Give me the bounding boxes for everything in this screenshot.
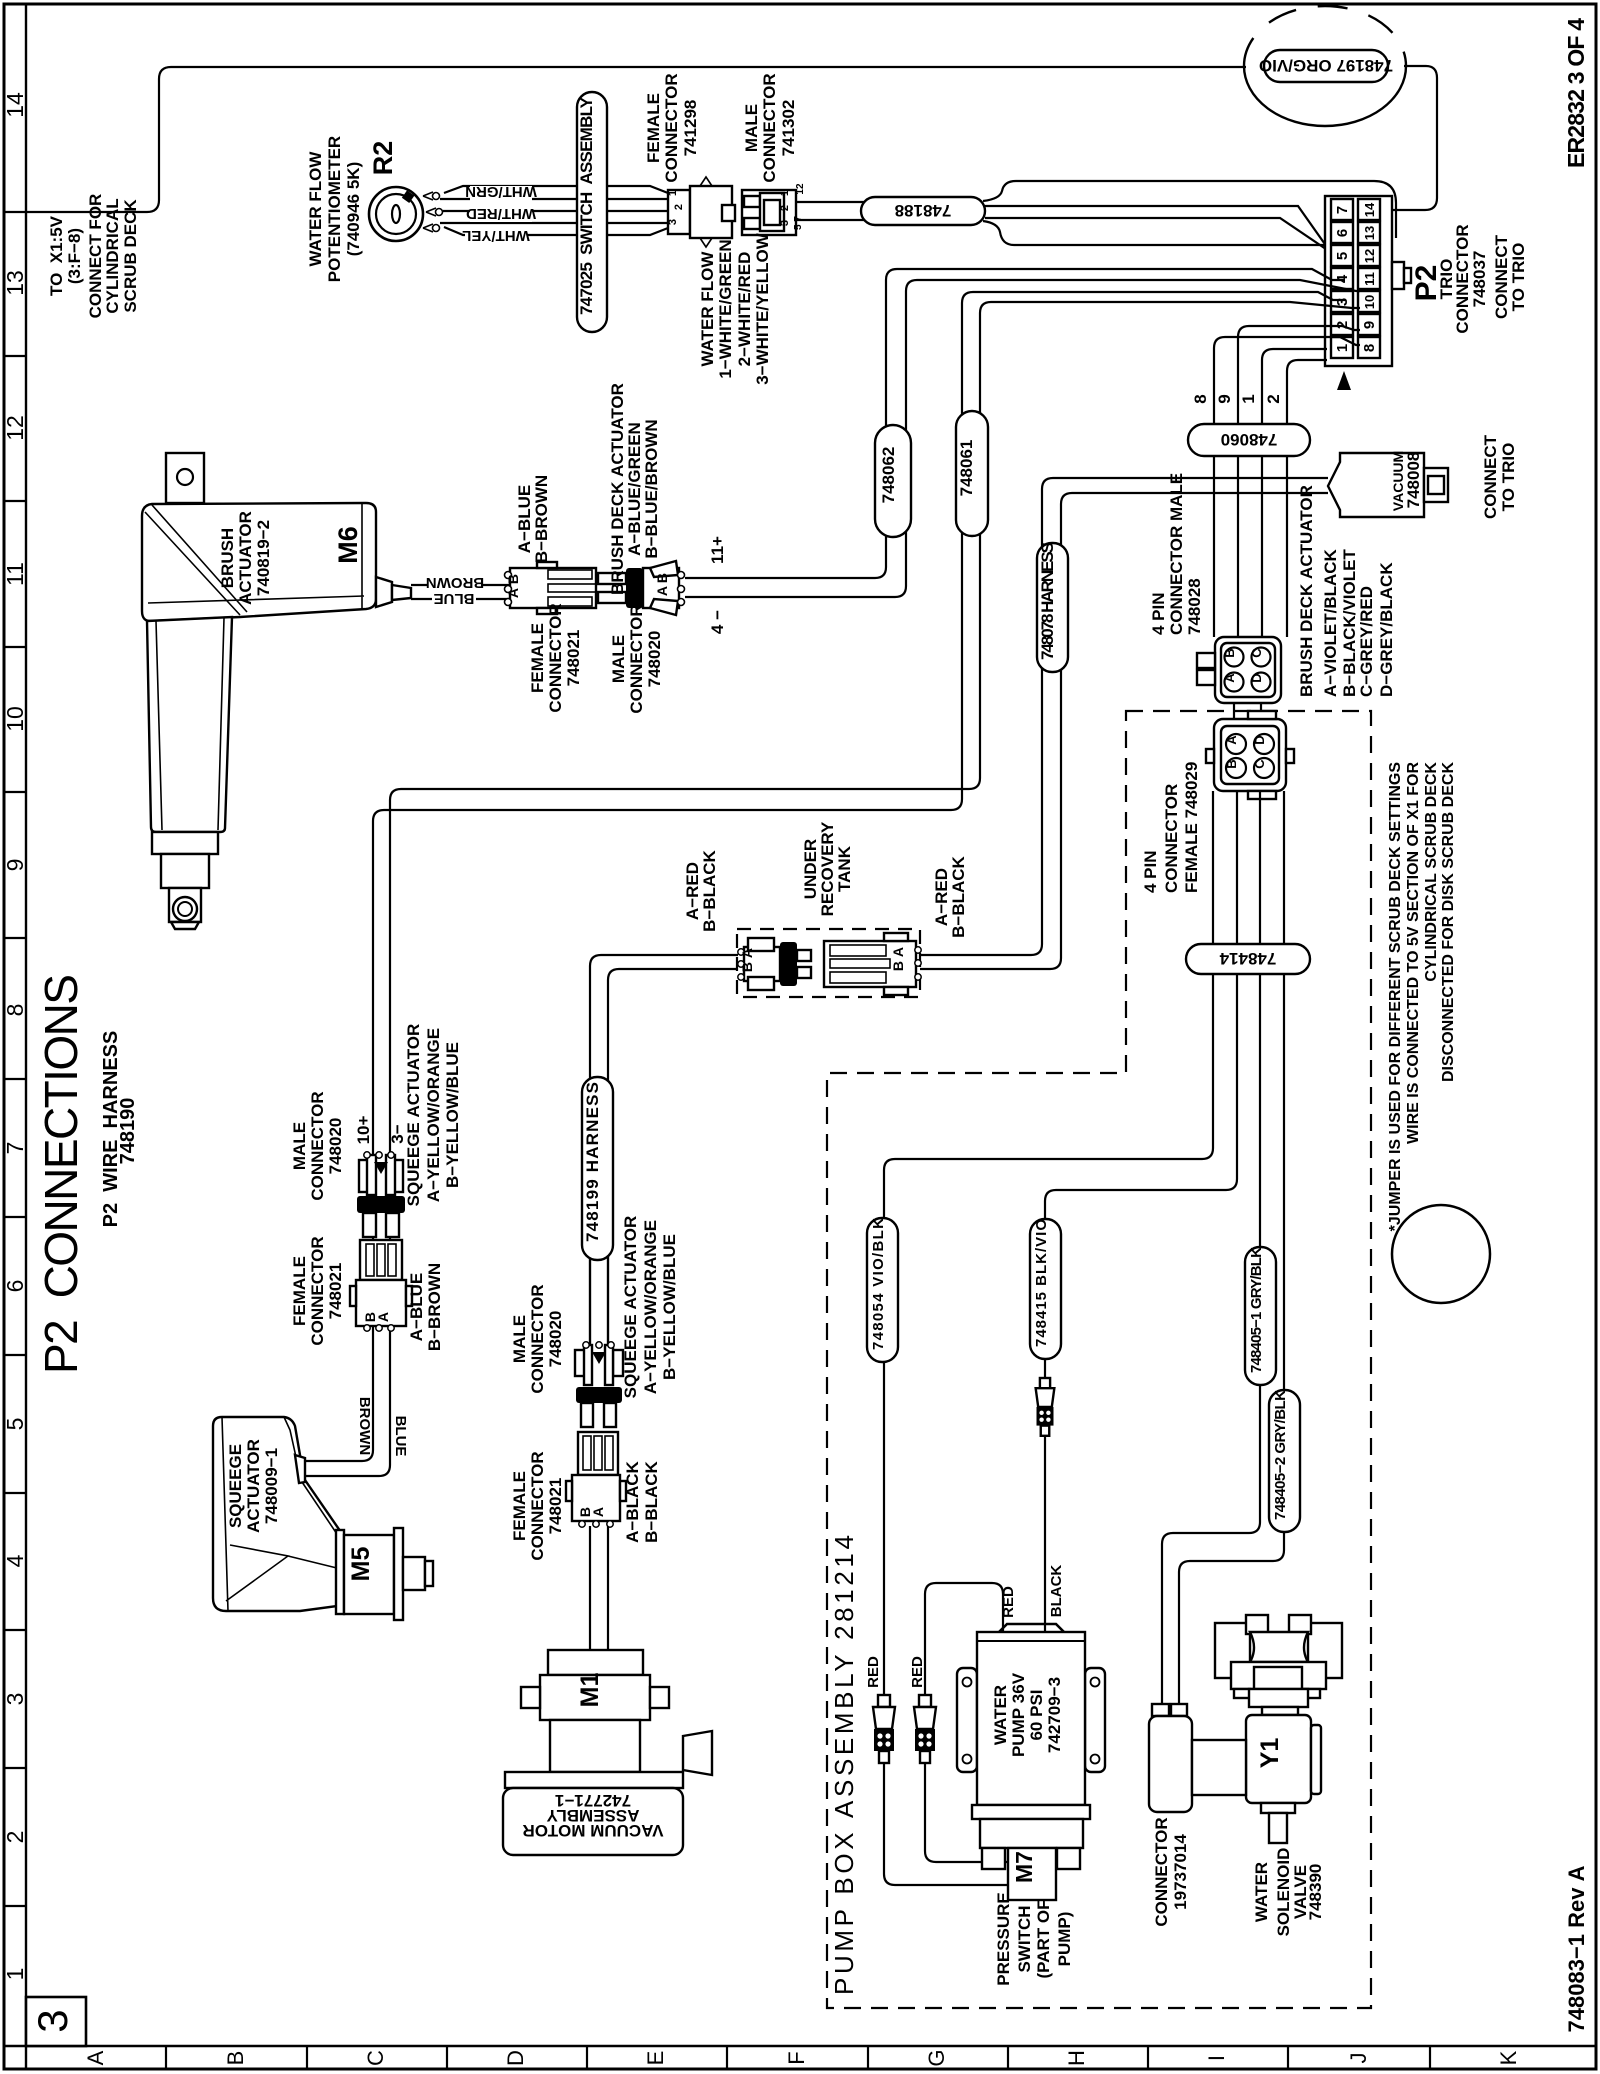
- svg-text:FEMALE 748029: FEMALE 748029: [1182, 762, 1201, 893]
- Y1 coil: [1246, 1715, 1311, 1803]
- svg-text:10: 10: [2, 706, 28, 732]
- svg-text:60 PSI: 60 PSI: [1027, 1689, 1046, 1740]
- svg-text:A: A: [654, 586, 670, 596]
- svg-text:CONNECTOR: CONNECTOR: [528, 1284, 547, 1393]
- svg-text:12: 12: [1362, 249, 1377, 263]
- svg-text:8: 8: [1191, 394, 1210, 403]
- svg-text:748020: 748020: [645, 631, 664, 688]
- wire label capsule 748199 HARNESS: [582, 1077, 613, 1260]
- svg-text:CYLINDRICAL: CYLINDRICAL: [103, 198, 122, 313]
- water solenoid valve Y1 manifold: [1215, 1623, 1250, 1678]
- wire label capsule 748405-2 GRY/BLK: [1269, 1390, 1300, 1532]
- inline connector (RED chain): [919, 1695, 931, 1707]
- svg-text:MALE: MALE: [510, 1315, 529, 1363]
- svg-text:9: 9: [2, 859, 28, 872]
- svg-text:MALE: MALE: [290, 1122, 309, 1170]
- svg-text:SQUEEGE: SQUEEGE: [226, 1444, 245, 1528]
- P2 pin 4: [1331, 268, 1353, 289]
- svg-text:748028: 748028: [1185, 578, 1204, 635]
- wire M6 B to P2 pin 11: [685, 280, 1360, 597]
- svg-text:Y1: Y1: [1256, 1738, 1284, 1769]
- svg-text:K: K: [1496, 2050, 1521, 2065]
- svg-text:1: 1: [667, 190, 679, 196]
- svg-text:D: D: [1252, 735, 1267, 744]
- svg-text:MALE: MALE: [609, 635, 628, 683]
- 4 pin connector male 748028: [1215, 637, 1281, 703]
- water pump 36V 60 PSI 742709-3: [999, 1624, 1064, 1632]
- wires P2 pins 8 9 1 2 down to 4 pin connector: [1214, 337, 1360, 424]
- P2 pin 14: [1358, 199, 1380, 220]
- svg-text:2: 2: [779, 205, 791, 211]
- svg-text:A−YELLOW/ORANGE: A−YELLOW/ORANGE: [424, 1028, 443, 1202]
- svg-text:FEMALE: FEMALE: [528, 623, 547, 693]
- svg-text:B−BROWN: B−BROWN: [425, 1263, 444, 1351]
- svg-text:12: 12: [795, 183, 806, 195]
- svg-text:3−WHITE/YELLOW: 3−WHITE/YELLOW: [753, 232, 772, 385]
- recovery tank female connector: [824, 941, 916, 987]
- switch assembly capsule 747025: [577, 92, 607, 332]
- svg-text:2: 2: [673, 204, 685, 210]
- brush actuator leg: [147, 617, 232, 832]
- svg-text:B: B: [739, 962, 755, 972]
- svg-text:12: 12: [2, 415, 28, 441]
- svg-text:10: 10: [1362, 295, 1377, 309]
- svg-text:CYLINDRICAL SCRUB DECK: CYLINDRICAL SCRUB DECK: [1423, 762, 1440, 982]
- svg-text:8: 8: [1361, 344, 1378, 352]
- svg-text:3: 3: [779, 220, 791, 226]
- P2 pin 5: [1331, 245, 1353, 266]
- svg-text:MALE: MALE: [742, 104, 761, 152]
- svg-text:C: C: [1249, 648, 1264, 658]
- svg-text:(3:F−8): (3:F−8): [65, 228, 84, 284]
- svg-text:POTENTIOMETER: POTENTIOMETER: [325, 136, 344, 282]
- svg-text:CONNECTOR: CONNECTOR: [1162, 784, 1181, 893]
- female connector 748021 (M6): [510, 568, 596, 608]
- P2 pin 7: [1331, 199, 1353, 220]
- balloon ellipse around 748197 label (dashed top arc): [1244, 66, 1406, 126]
- wire label capsule 748061: [956, 411, 988, 536]
- brush actuator rod and eye: [152, 832, 218, 854]
- svg-text:ACTUATOR: ACTUATOR: [236, 511, 255, 605]
- svg-text:CONNECTOR MALE: CONNECTOR MALE: [1167, 473, 1186, 635]
- svg-text:BROWN: BROWN: [426, 574, 484, 591]
- svg-text:748054 VIO/BLK: 748054 VIO/BLK: [870, 1218, 887, 1350]
- svg-text:B−BROWN: B−BROWN: [532, 475, 551, 563]
- squeegee actuator 748009-1 body M5: [213, 1417, 345, 1611]
- wire WHT/GRN: [440, 198, 668, 200]
- wire M6 A to P2 pin 4: [685, 269, 1345, 578]
- svg-text:BLUE: BLUE: [434, 590, 475, 607]
- svg-text:M6: M6: [333, 526, 363, 564]
- svg-text:2: 2: [1264, 394, 1283, 403]
- svg-text:748190: 748190: [117, 1098, 139, 1165]
- svg-text:FEMALE: FEMALE: [290, 1256, 309, 1326]
- female connector 748021 (M1 chain): [578, 1432, 618, 1475]
- svg-text:WHT/RED: WHT/RED: [466, 205, 536, 222]
- svg-text:A: A: [375, 1312, 391, 1322]
- svg-text:ER2832 3 OF 4: ER2832 3 OF 4: [1563, 18, 1589, 168]
- svg-text:PUMP 36V: PUMP 36V: [1009, 1672, 1028, 1757]
- inline connector (748054 chain): [878, 1695, 890, 1707]
- vacuum plug 748008: [1328, 453, 1424, 517]
- svg-text:6: 6: [2, 1280, 28, 1293]
- svg-text:B: B: [223, 2051, 248, 2066]
- female connector 748021 (M5 chain): [360, 1240, 402, 1280]
- svg-text:1: 1: [1239, 394, 1258, 403]
- wire label capsule 748415 BLK/VIO: [1030, 1219, 1061, 1359]
- svg-text:2−WHITE/RED: 2−WHITE/RED: [735, 252, 754, 367]
- svg-text:BLUE: BLUE: [392, 1416, 409, 1457]
- svg-text:RED: RED: [865, 1656, 882, 1688]
- wire M5 A to P2 pin 3: [299, 292, 1345, 1461]
- svg-text:CONNECTOR: CONNECTOR: [308, 1091, 327, 1200]
- svg-text:7: 7: [2, 1142, 28, 1155]
- svg-text:WATER FLOW: WATER FLOW: [306, 151, 325, 267]
- water flow potentiometer R2 (740946 5K): [369, 187, 423, 241]
- vacuum motor M1 chain wires: [590, 1526, 608, 1650]
- svg-text:CONNECTOR: CONNECTOR: [1152, 1817, 1171, 1926]
- svg-text:RED: RED: [1000, 1586, 1017, 1618]
- P2 connector side tab: [1392, 262, 1404, 289]
- svg-text:J: J: [1346, 2053, 1371, 2064]
- svg-text:748009−1: 748009−1: [262, 1448, 281, 1524]
- svg-text:2: 2: [2, 1831, 28, 1844]
- svg-text:748062: 748062: [879, 447, 898, 504]
- dashed outline pump box assembly + 4 pin connector region: [827, 711, 1371, 2008]
- wire label capsule 748062: [875, 425, 911, 537]
- 748199 HARNESS wires up to recovery tank: [590, 955, 738, 1090]
- svg-text:1: 1: [2, 1968, 28, 1981]
- svg-text:I: I: [1204, 2055, 1229, 2061]
- wire M6 BROWN: [411, 584, 510, 586]
- P2 pin 8: [1358, 337, 1380, 358]
- wire label capsule 748414: [1186, 944, 1310, 974]
- P2 pin 2: [1331, 314, 1353, 335]
- svg-text:C: C: [363, 2050, 388, 2066]
- svg-text:741302: 741302: [779, 100, 798, 157]
- svg-text:4 −: 4 −: [708, 610, 727, 634]
- svg-text:B: B: [654, 573, 670, 583]
- svg-text:748020: 748020: [326, 1118, 345, 1175]
- wire label capsule 748060: [1188, 424, 1310, 456]
- svg-text:F: F: [784, 2051, 809, 2064]
- svg-text:748414: 748414: [1219, 949, 1276, 968]
- svg-text:E: E: [643, 2051, 668, 2066]
- svg-text:748008: 748008: [1404, 452, 1423, 509]
- svg-text:4: 4: [2, 1554, 28, 1567]
- svg-text:B: B: [1224, 759, 1239, 768]
- svg-text:C−GREY/RED: C−GREY/RED: [1357, 586, 1376, 697]
- svg-text:CONNECTOR: CONNECTOR: [662, 73, 681, 182]
- svg-text:VACUUM MOTOR: VACUUM MOTOR: [522, 1821, 663, 1840]
- svg-text:B−BLACK: B−BLACK: [700, 849, 719, 931]
- svg-text:BRUSH: BRUSH: [218, 528, 237, 588]
- svg-text:6: 6: [1334, 229, 1351, 237]
- svg-text:D: D: [1249, 673, 1264, 682]
- svg-text:7: 7: [1334, 206, 1351, 214]
- svg-text:4 PIN: 4 PIN: [1141, 850, 1160, 893]
- svg-text:A−YELLOW/ORANGE: A−YELLOW/ORANGE: [641, 1220, 660, 1394]
- svg-text:WHT/GRN: WHT/GRN: [465, 183, 537, 200]
- svg-text:3: 3: [667, 219, 679, 225]
- svg-text:A−BLACK: A−BLACK: [623, 1460, 642, 1542]
- wires male to female 4 pin: [1234, 703, 1261, 719]
- svg-text:5 7: 5 7: [793, 216, 804, 230]
- male connector 748020 (M5 chain): [359, 1160, 372, 1192]
- wire WHT/YEL: [440, 222, 668, 224]
- svg-text:19737014: 19737014: [1171, 1834, 1190, 1910]
- svg-text:RED: RED: [909, 1656, 926, 1688]
- svg-text:748061: 748061: [957, 440, 976, 497]
- zone box 3: [26, 1997, 86, 2046]
- svg-text:748060: 748060: [1221, 430, 1278, 449]
- svg-text:A: A: [739, 948, 755, 958]
- svg-text:B: B: [890, 961, 906, 971]
- svg-text:(740946 5K): (740946 5K): [344, 162, 363, 257]
- svg-text:B: B: [1222, 648, 1237, 657]
- svg-text:1: 1: [779, 190, 791, 196]
- wire pin B to pressure switch via 748054 VIO/BLK: [884, 791, 1213, 1885]
- svg-text:4 PIN: 4 PIN: [1149, 592, 1168, 635]
- wire labels WHT/GRN WHT/RED WHT/YEL: [470, 186, 532, 201]
- squeegee actuator nose tab: [295, 1455, 305, 1483]
- svg-text:14: 14: [2, 92, 28, 118]
- svg-text:G: G: [924, 2049, 949, 2066]
- svg-text:A−BLUE: A−BLUE: [407, 1273, 426, 1341]
- svg-text:11+: 11+: [708, 536, 727, 564]
- labels BROWN BLUE (M6 leads): [427, 578, 483, 592]
- svg-text:P2 CONNECTIONS: P2 CONNECTIONS: [35, 974, 87, 1374]
- brush actuator 740819-2 mounting tab: [166, 453, 204, 503]
- svg-text:748021: 748021: [326, 1263, 345, 1320]
- recovery tank male connector: [744, 947, 780, 981]
- svg-text:B: B: [505, 574, 521, 584]
- svg-text:A: A: [1224, 735, 1239, 745]
- svg-text:D: D: [503, 2050, 528, 2066]
- svg-text:WATER: WATER: [1252, 1862, 1271, 1922]
- grid row letters A..K (bottom strip): [165, 2046, 167, 2069]
- R2 terminals: [423, 192, 436, 232]
- wire pin D to Y1 via 748405-1 GRY/BLK: [1162, 791, 1260, 1706]
- wire WHT/RED: [443, 210, 668, 212]
- svg-text:A: A: [505, 588, 521, 598]
- svg-text:PUMP): PUMP): [1055, 1912, 1074, 1967]
- svg-text:9: 9: [1361, 321, 1378, 329]
- svg-text:SWITCH: SWITCH: [1015, 1905, 1034, 1972]
- svg-text:FEMALE: FEMALE: [644, 93, 663, 163]
- svg-text:741298: 741298: [681, 100, 700, 157]
- svg-text:748188: 748188: [895, 201, 952, 220]
- wire label capsule 748405-1 GRY/BLK: [1245, 1247, 1276, 1385]
- P2 TRIO connector 748037: [1325, 196, 1392, 366]
- harness bundle outline to P2: [983, 181, 1396, 238]
- svg-text:M1: M1: [576, 1673, 604, 1708]
- svg-text:WHT/YEL: WHT/YEL: [462, 227, 530, 244]
- female connector 741298: [668, 190, 690, 234]
- svg-text:CONNECTOR: CONNECTOR: [627, 604, 646, 713]
- harness outline pot to switch assembly: [444, 186, 668, 235]
- svg-text:8: 8: [2, 1004, 28, 1017]
- brush actuator M6 body: [142, 503, 376, 621]
- wires 748060 to 4 pin male connector: [1214, 456, 1287, 647]
- svg-text:13: 13: [2, 270, 28, 296]
- svg-text:748020: 748020: [546, 1311, 565, 1368]
- svg-text:A−VIOLET/BLACK: A−VIOLET/BLACK: [1321, 548, 1340, 697]
- P2 polarity arrow: [1337, 371, 1351, 390]
- svg-text:BROWN: BROWN: [356, 1397, 373, 1455]
- svg-text:748197 ORG/VIO: 748197 ORG/VIO: [1259, 56, 1393, 75]
- svg-text:A: A: [1222, 673, 1237, 683]
- svg-text:1−WHITE/GREEN: 1−WHITE/GREEN: [716, 239, 735, 378]
- male connector 741302: [742, 190, 796, 235]
- wire to P2 pin 5: [985, 206, 1345, 257]
- svg-text:B−BLACK: B−BLACK: [949, 855, 968, 937]
- svg-text:1: 1: [1334, 344, 1351, 352]
- svg-text:748021: 748021: [564, 630, 583, 687]
- svg-text:H: H: [1064, 2050, 1089, 2066]
- svg-text:748078 HARNESS: 748078 HARNESS: [1038, 542, 1057, 660]
- svg-text:9: 9: [1215, 394, 1234, 403]
- P2 pin 12: [1358, 245, 1380, 266]
- wire label capsule 748188: [861, 197, 985, 225]
- wire label capsule 748054 VIO/BLK: [867, 1218, 898, 1362]
- svg-text:A: A: [590, 1507, 606, 1517]
- P2 pin 10: [1358, 291, 1380, 312]
- wire pin A to Y1 via 748405-2 GRY/BLK: [1179, 791, 1284, 1706]
- svg-text:SCRUB DECK: SCRUB DECK: [121, 199, 140, 313]
- svg-text:BLACK: BLACK: [1048, 1565, 1065, 1618]
- svg-text:M5: M5: [347, 1547, 375, 1582]
- P2 pin 13: [1358, 222, 1380, 243]
- svg-text:748415 BLK/VIO: 748415 BLK/VIO: [1033, 1219, 1050, 1347]
- svg-text:M7: M7: [1011, 1851, 1037, 1883]
- svg-text:R2: R2: [368, 141, 398, 176]
- svg-text:748390: 748390: [1306, 1864, 1325, 1921]
- svg-text:CONNECTOR: CONNECTOR: [760, 73, 779, 182]
- wire label capsule 748078 HARNESS: [1037, 543, 1068, 672]
- svg-text:PUMP BOX ASSEMBLY 281214: PUMP BOX ASSEMBLY 281214: [829, 1535, 859, 1995]
- svg-text:748199 HARNESS: 748199 HARNESS: [583, 1082, 602, 1242]
- svg-text:742709−3: 742709−3: [1045, 1677, 1064, 1753]
- svg-text:747025 SWITCH ASSEMBLY: 747025 SWITCH ASSEMBLY: [577, 96, 596, 315]
- wire M5 B to P2 pin 10: [299, 302, 1360, 1476]
- svg-text:748405−2 GRY/BLK: 748405−2 GRY/BLK: [1272, 1390, 1289, 1520]
- svg-text:ACTUATOR: ACTUATOR: [244, 1439, 263, 1533]
- P2 pin 6: [1331, 222, 1353, 243]
- svg-text:A: A: [890, 947, 906, 957]
- svg-text:PRESSURE: PRESSURE: [994, 1892, 1013, 1986]
- svg-text:B−YELLOW/BLUE: B−YELLOW/BLUE: [443, 1042, 462, 1188]
- svg-text:5: 5: [1334, 252, 1351, 260]
- wire: net 748197 ORG/VIO from left border to P2 pin 14: [26, 67, 1246, 212]
- svg-text:5: 5: [2, 1418, 28, 1431]
- wires recovery tank to 748078 harness and vacuum plug: [920, 478, 1328, 955]
- svg-text:SQUEEGE ACTUATOR: SQUEEGE ACTUATOR: [621, 1216, 640, 1399]
- svg-text:748037: 748037: [1470, 251, 1489, 308]
- svg-text:CONNECT: CONNECT: [1481, 434, 1500, 519]
- inline connector (748415 chain): [1040, 1378, 1050, 1388]
- brush actuator nose: [376, 577, 392, 607]
- svg-text:3: 3: [2, 1693, 28, 1706]
- svg-text:WATER: WATER: [991, 1685, 1010, 1745]
- svg-text:CONNECTOR: CONNECTOR: [528, 1451, 547, 1560]
- P2 pin 9: [1358, 314, 1380, 335]
- svg-text:(PART OF: (PART OF: [1034, 1899, 1053, 1978]
- svg-text:11: 11: [2, 562, 28, 586]
- svg-text:WATER FLOW: WATER FLOW: [698, 251, 717, 367]
- svg-text:13: 13: [1362, 226, 1377, 240]
- svg-text:14: 14: [1362, 202, 1377, 217]
- wire to P2 pin 12: [985, 218, 1360, 268]
- svg-text:748083−1 Rev A: 748083−1 Rev A: [1564, 1865, 1589, 2032]
- M5 motor box: [336, 1530, 344, 1614]
- svg-text:FEMALE: FEMALE: [510, 1471, 529, 1541]
- svg-text:10+: 10+: [354, 1116, 373, 1145]
- svg-text:4: 4: [1334, 274, 1351, 283]
- male connector 748020 (M6): [598, 573, 626, 584]
- 4 pin connector female 748029: [1214, 719, 1286, 791]
- svg-text:11: 11: [1362, 272, 1377, 286]
- svg-text:D−GREY/BLACK: D−GREY/BLACK: [1377, 562, 1396, 697]
- svg-text:3: 3: [29, 2009, 76, 2032]
- P2 pin 11: [1358, 268, 1380, 289]
- svg-text:TO X1:5V: TO X1:5V: [47, 215, 66, 296]
- male connector 748020 (M1 chain): [575, 1350, 585, 1376]
- wires 741302 to 748188: [796, 202, 866, 220]
- svg-text:*JUMPER IS USED FOR DIFFERENT: *JUMPER IS USED FOR DIFFERENT SCRUB DECK…: [1387, 762, 1404, 1232]
- svg-text:748021: 748021: [546, 1478, 565, 1535]
- svg-text:DISCONNECTED FOR DISK SCRUB DE: DISCONNECTED FOR DISK SCRUB DECK: [1440, 762, 1457, 1082]
- vacuum motor M1: [548, 1650, 643, 1675]
- P2 pin 3: [1331, 291, 1353, 312]
- wire label capsule 748197 ORG/VIO: [1264, 50, 1388, 82]
- pressure switch M7: [1008, 1848, 1056, 1900]
- svg-text:C: C: [1252, 759, 1267, 769]
- wire pin C to water pump BLACK via 748415 BLK/VIO: [1045, 791, 1237, 1632]
- jumper circle: [1392, 1205, 1490, 1303]
- svg-text:SQUEEGE ACTUATOR: SQUEEGE ACTUATOR: [404, 1024, 423, 1207]
- svg-text:748405−1 GRY/BLK: 748405−1 GRY/BLK: [1248, 1247, 1265, 1373]
- svg-text:B−YELLOW/BLUE: B−YELLOW/BLUE: [660, 1234, 679, 1380]
- svg-text:CONNECTOR: CONNECTOR: [546, 603, 565, 712]
- svg-text:TO TRIO: TO TRIO: [1499, 443, 1518, 512]
- dashed box UNDER RECOVERY TANK: [737, 929, 920, 997]
- wire M6 BLUE: [411, 598, 510, 600]
- svg-text:740819−2: 740819−2: [254, 520, 273, 596]
- wire RED pump to pressure switch: [925, 1583, 1008, 1862]
- svg-text:TANK: TANK: [835, 845, 854, 892]
- connector 19737014: [1152, 1704, 1169, 1716]
- svg-text:CONNECTOR: CONNECTOR: [308, 1236, 327, 1345]
- svg-text:B−BLUE/BROWN: B−BLUE/BROWN: [642, 419, 661, 558]
- svg-text:TO TRIO: TO TRIO: [1509, 243, 1528, 312]
- P2 pin 1: [1331, 337, 1353, 358]
- svg-text:A: A: [83, 2050, 108, 2065]
- svg-text:BRUSH DECK ACTUATOR: BRUSH DECK ACTUATOR: [1297, 485, 1316, 697]
- svg-text:B−BLACK: B−BLACK: [642, 1460, 661, 1542]
- svg-text:WIRE IS CONNECTED TO 5V SECTIO: WIRE IS CONNECTED TO 5V SECTION OF X1 FO…: [1405, 762, 1422, 1144]
